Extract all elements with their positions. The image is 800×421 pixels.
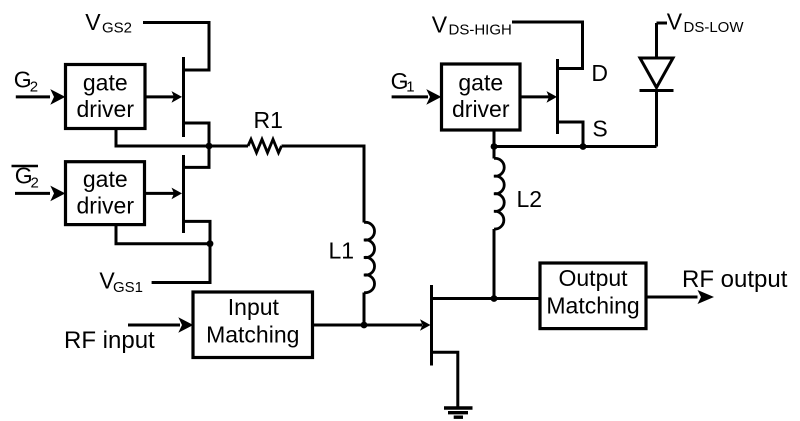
wire Input Matching to M0 gate arrow: [313, 324, 423, 327]
svg-text:S: S: [592, 116, 607, 142]
svg-text:DS-LOW: DS-LOW: [684, 19, 745, 36]
svg-text:R1: R1: [254, 107, 283, 133]
svg-text:GS1: GS1: [113, 279, 143, 296]
wire RF output arrow: [646, 296, 698, 299]
wire L2 bottom to node D: [493, 229, 496, 299]
svg-text:driver: driver: [77, 192, 135, 218]
node A junction dot: [206, 143, 213, 150]
transistor Q2 (top-left switch) channel bar: [182, 57, 185, 137]
label VGS2: [85, 9, 132, 37]
svg-text:Matching: Matching: [206, 322, 299, 348]
gate driver U2 box: [66, 65, 146, 129]
svg-text:gate: gate: [83, 166, 128, 192]
wire VGS2 to Q2 drain: [143, 23, 209, 71]
wire to diode anode: [655, 23, 658, 58]
svg-text:V: V: [85, 9, 101, 35]
svg-text:RF input: RF input: [64, 327, 155, 354]
svg-text:RF output: RF output: [682, 266, 788, 293]
node B junction dot: [207, 240, 214, 247]
wire RF input arrow: [128, 324, 180, 327]
svg-text:V: V: [667, 9, 683, 35]
wire L1 bottom to node C: [363, 293, 366, 326]
svg-text:L1: L1: [329, 238, 355, 264]
svg-text:2: 2: [30, 79, 38, 96]
wire U3 bottom to node F: [493, 130, 496, 147]
wire U1 output arrow to Q1 gate: [145, 192, 175, 195]
label VDS-HIGH: [432, 12, 512, 39]
wire Q2 source lead: [184, 123, 210, 146]
label VGS1: [99, 267, 143, 296]
node E junction dot: [580, 143, 587, 150]
node D junction dot: [491, 295, 498, 302]
svg-text:V: V: [432, 12, 448, 38]
svg-text:DS-HIGH: DS-HIGH: [449, 22, 512, 39]
wire U1 bottom to node B: [116, 225, 210, 244]
inductor L1: [364, 222, 375, 292]
svg-text:1: 1: [406, 79, 414, 96]
wire U2 output arrow to Q2 gate: [145, 95, 174, 98]
wire G2 input arrow: [16, 95, 50, 98]
svg-text:gate: gate: [458, 70, 503, 96]
svg-text:gate: gate: [83, 70, 128, 96]
wire M1 source lead to node E: [558, 122, 584, 147]
svg-text:driver: driver: [77, 96, 135, 122]
ground: [444, 408, 473, 417]
wire node F to L2: [493, 147, 496, 159]
svg-text:Output: Output: [559, 265, 629, 291]
svg-text:D: D: [591, 60, 608, 86]
wire VDS-HIGH to M1 drain: [512, 22, 583, 69]
label G2bar: [15, 163, 39, 192]
transistor M1 (high-side switch) channel bar: [556, 59, 559, 134]
Output Matching box: [540, 263, 646, 329]
label VDS-LOW: [667, 9, 745, 36]
svg-text:2: 2: [31, 175, 39, 192]
svg-text:Input: Input: [228, 294, 280, 320]
node F junction dot: [491, 143, 498, 150]
svg-text:GS2: GS2: [102, 20, 132, 37]
transistor Q1 (bottom-left switch) channel bar: [182, 155, 185, 233]
wire Q1 source lead to node B: [184, 221, 211, 243]
svg-text:Matching: Matching: [546, 293, 639, 319]
node C junction dot: [361, 322, 368, 329]
svg-text:driver: driver: [452, 96, 510, 122]
inductor L2: [494, 158, 504, 229]
svg-text:L2: L2: [517, 186, 543, 212]
wire R1 to L1 top: [282, 146, 365, 223]
diode D1: [640, 58, 673, 88]
wire U2 bottom to node A: [116, 129, 209, 147]
wire U3 output arrow to M1 gate: [520, 95, 549, 98]
resistor R1: [248, 139, 282, 152]
gate driver U1 box: [66, 162, 145, 225]
wire Q1 drain lead to node A: [184, 146, 210, 167]
wire diode cathode to source rail: [655, 91, 658, 147]
wire VGS1 to node B: [152, 244, 210, 283]
wire M0 source lead: [432, 352, 458, 407]
gate driver U3 box: [442, 64, 521, 130]
wire source rail node F to diode: [494, 145, 657, 148]
wire VDS-LOW stub: [657, 22, 668, 25]
wire M0 drain to Output Matching: [432, 297, 541, 300]
label G2: [14, 67, 38, 96]
wire node A to R1: [209, 145, 248, 148]
Input Matching box: [193, 292, 313, 358]
transistor M0 (RF power FET) channel bar: [430, 285, 433, 366]
overline of G2bar: [12, 165, 39, 168]
wire G1 input arrow: [392, 95, 428, 98]
label G1: [391, 68, 415, 96]
wire G2bar input arrow: [15, 192, 50, 195]
